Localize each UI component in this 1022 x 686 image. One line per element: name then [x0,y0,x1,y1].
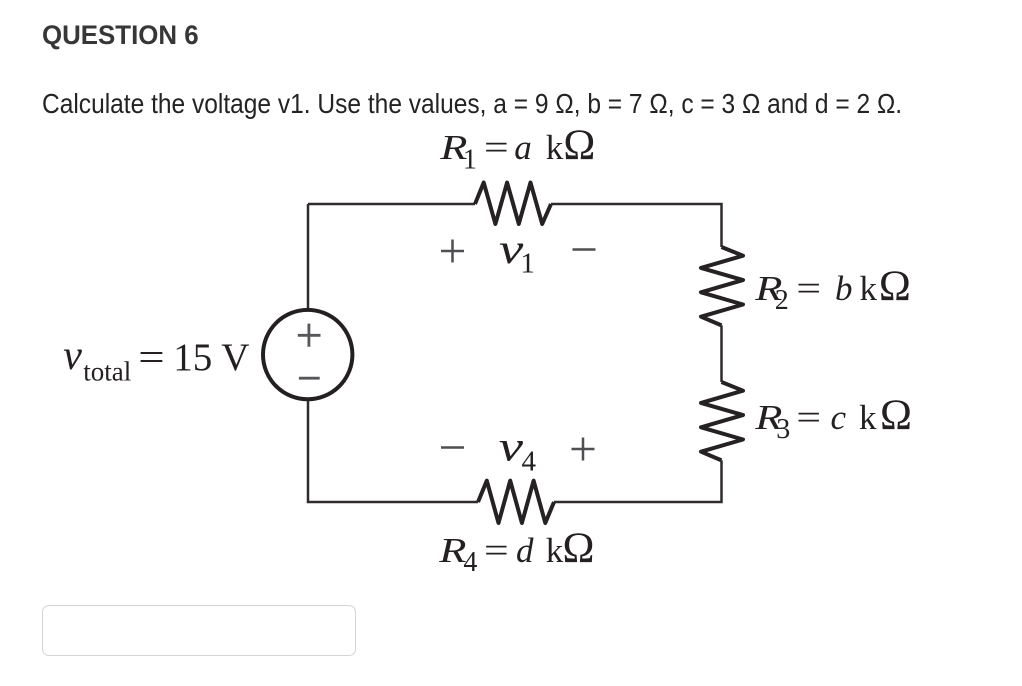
svg-text:Ω: Ω [880,392,912,439]
svg-text:=: = [796,269,821,308]
prompt text [42,88,902,120]
svg-text:Ω: Ω [563,525,595,572]
resistor R1 [475,183,551,225]
v4 polarity minus [441,446,464,449]
v1 polarity minus [573,248,596,251]
v4 polarity plus [572,438,595,461]
svg-text:=: = [484,128,509,167]
label v4 [499,423,537,477]
label R1 = a kOhm [439,122,595,176]
svg-text:=: = [138,337,164,380]
resistor R2 [701,247,743,325]
wire top-left to R1 [308,203,475,206]
svg-text:1: 1 [520,248,535,280]
svg-text:=: = [796,398,821,437]
resistor R4 [478,481,554,523]
resistor R3 [701,382,743,460]
label R2 = b kOhm [754,263,911,316]
svg-text:Ω: Ω [563,122,595,169]
svg-text:v: v [499,423,524,470]
question heading [42,20,199,51]
svg-text:1ak: 1ak [463,128,564,176]
svg-text:3ck: 3ck [776,398,877,445]
svg-text:=: = [484,531,509,570]
voltage source minus mark [299,377,320,380]
wire R3 to bottom-right corner to R4 [554,460,722,502]
wire R2 to R3 [720,325,723,382]
answer input box [42,605,356,656]
svg-text:R: R [438,531,466,570]
label R3 = c kOhm [754,392,912,445]
wire R1 to top-right corner [551,204,722,247]
svg-text:v: v [63,333,82,379]
label vtotal = 15 V [63,333,249,387]
wire R4 to bottom-left corner up left side [308,204,478,502]
svg-text:4dk: 4dk [463,531,563,578]
voltage source plus mark [298,324,321,347]
svg-text:4: 4 [522,446,537,478]
voltage source Vtotal circle [263,310,352,399]
label v1 [499,226,535,280]
label R4 = d kOhm [438,525,594,578]
svg-text:Ω: Ω [879,263,911,310]
v1 polarity plus [441,240,464,263]
svg-text:2bk: 2bk [775,269,878,316]
svg-text:total15 V: total15 V [83,336,249,387]
